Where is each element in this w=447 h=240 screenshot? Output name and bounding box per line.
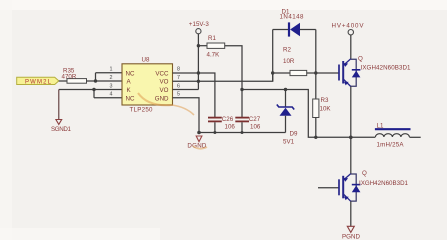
power +15V-3 <box>189 21 210 34</box>
svg-text:NC: NC <box>126 95 135 102</box>
svg-text:IXGH42N60B3D1: IXGH42N60B3D1 <box>359 180 409 187</box>
wire R35 to pin2 <box>87 80 123 82</box>
node gate junction <box>314 71 317 74</box>
svg-text:VCC: VCC <box>155 70 169 77</box>
wire pin1-pin2 tie <box>95 73 97 81</box>
wire DGND rail <box>199 132 286 134</box>
wire gate lead to Q top <box>316 72 339 74</box>
svg-text:C26: C26 <box>222 116 234 123</box>
wire Q emitter to switch node <box>350 87 352 138</box>
svg-text:HV+400V: HV+400V <box>332 23 365 30</box>
wire +15V vertical <box>197 34 199 90</box>
svg-text:IXGH42N60B3D1: IXGH42N60B3D1 <box>361 64 412 71</box>
wire pin7 VO row <box>173 73 273 81</box>
wire pin3 row to SGND branch <box>59 89 122 91</box>
svg-text:TLP250: TLP250 <box>130 106 154 113</box>
wire R1 right to cap C27 <box>225 46 242 118</box>
node pin7 junction <box>197 80 200 83</box>
wire pin1 stub <box>96 72 123 74</box>
svg-text:Q: Q <box>362 170 367 177</box>
inductor L1 <box>351 123 421 149</box>
svg-text:Q: Q <box>358 55 363 62</box>
wire pin5 GND to DGND rail <box>173 98 200 133</box>
node pin8 junction <box>197 71 200 74</box>
wire emitter feedback row <box>242 90 351 138</box>
svg-text:R3: R3 <box>321 97 329 104</box>
wire Q2 gate stub <box>318 187 339 189</box>
resistor R3 <box>313 97 332 137</box>
port PWM2L <box>17 77 59 85</box>
wire down to SGND1 <box>58 90 60 120</box>
svg-text:4: 4 <box>110 92 113 98</box>
svg-text:470R: 470R <box>62 73 77 80</box>
svg-text:106: 106 <box>225 124 236 131</box>
wire pin6 VO stub <box>173 89 199 91</box>
wire pin4 stub <box>94 97 122 99</box>
svg-text:GND: GND <box>155 95 169 102</box>
diode D1 1N4148 <box>273 8 316 36</box>
wire pin8 VCC row <box>173 73 215 118</box>
svg-text:PWM2L: PWM2L <box>25 79 52 85</box>
wire switch node down to Q2 collector <box>350 137 352 173</box>
svg-text:10R: 10R <box>283 58 295 65</box>
node switch junction <box>349 136 353 140</box>
resistor R35 <box>62 68 87 84</box>
watermark swirl <box>138 93 207 149</box>
svg-text:1: 1 <box>110 67 113 73</box>
ground PGND <box>342 226 361 240</box>
svg-text:1mH/25A: 1mH/25A <box>377 141 405 148</box>
capacitor C26 <box>208 116 235 133</box>
resistor R2 <box>273 46 316 75</box>
node R3 bottom junction <box>314 136 317 139</box>
node D1/R2 left junction <box>271 71 274 74</box>
svg-text:8: 8 <box>177 67 180 73</box>
svg-text:+15V-3: +15V-3 <box>189 21 210 28</box>
svg-text:10K: 10K <box>320 106 332 113</box>
wire HV to Q collector <box>350 35 352 59</box>
svg-text:U8: U8 <box>142 57 150 64</box>
ground SGND1 <box>51 120 72 133</box>
wire PWM2L to R35 <box>59 80 67 82</box>
zener D9 5V1 <box>277 88 298 146</box>
svg-text:7: 7 <box>177 75 180 81</box>
op-amp U8 TLP250 optocoupler <box>122 57 173 114</box>
svg-text:6: 6 <box>177 83 180 89</box>
node +15V/R1 junction <box>197 44 200 47</box>
node C26 bottom <box>213 131 216 134</box>
svg-text:C27: C27 <box>249 116 261 123</box>
svg-text:5V1: 5V1 <box>283 138 295 145</box>
wire pin4-pin3 tie <box>93 90 95 98</box>
svg-text:3: 3 <box>110 83 113 89</box>
svg-text:4.7K: 4.7K <box>207 52 221 59</box>
svg-text:106: 106 <box>250 124 261 131</box>
node pin2 junction <box>94 79 97 82</box>
svg-text:PGND: PGND <box>342 234 361 240</box>
svg-text:SGND1: SGND1 <box>51 126 72 133</box>
svg-text:VO: VO <box>160 79 169 86</box>
node R1 net junction <box>240 88 243 91</box>
wire Q2 emitter to PGND <box>350 201 352 226</box>
transistor Q (top IGBT IXGH42N60B3D1) <box>339 55 411 86</box>
capacitor C27 <box>235 116 261 133</box>
svg-text:R2: R2 <box>283 46 291 53</box>
node C27 bottom <box>241 131 244 134</box>
node DGND junction <box>197 131 201 135</box>
ground DGND <box>187 136 207 149</box>
wire D1 right leg / R3 top <box>315 30 317 100</box>
svg-text:1N4148: 1N4148 <box>280 14 305 21</box>
svg-text:5: 5 <box>177 92 180 98</box>
power HV+400V <box>332 23 365 35</box>
svg-text:VO: VO <box>160 87 169 94</box>
svg-text:D9: D9 <box>290 130 298 137</box>
svg-text:R1: R1 <box>208 35 216 42</box>
node pin3 junction <box>92 88 95 91</box>
svg-text:2: 2 <box>110 75 113 81</box>
svg-text:NC: NC <box>126 70 135 77</box>
transistor Q (bottom IGBT IXGH42N60B3D1) <box>339 170 409 201</box>
resistor R1 <box>198 35 224 59</box>
wire D1 left leg down to VO riser <box>272 30 274 82</box>
